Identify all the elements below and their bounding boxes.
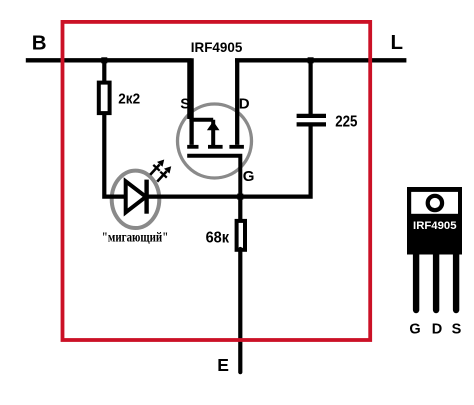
svg-text:E: E [217,355,229,375]
label IRF4905 (schematic) [191,39,243,55]
label R1 value 2к2 [118,90,140,107]
TO-220 leg G [413,255,419,311]
wire: C1 bottom lead down and left to gate node [240,126,311,196]
svg-text:S: S [452,322,462,338]
pin label D [239,96,250,113]
label "мигающий" [102,230,169,245]
svg-text:IRF4905: IRF4905 [413,220,457,232]
svg-text:IRF4905: IRF4905 [191,39,243,55]
node: gate junction [237,194,243,200]
resistor R2 [237,221,245,250]
LED D1 circle [112,171,160,228]
node: junction B rail / R1 [101,57,107,63]
resistor R1 [99,83,110,114]
wire: B rail from left end to transistor source corner [26,58,192,145]
TO-220 pin label G [409,322,420,338]
wire: R1 bottom lead down and right to LED anode [104,113,126,197]
wire: gate node to R2 top [238,197,242,222]
svg-text:225: 225 [335,113,358,130]
transistor Q1 drain contact bar [229,145,244,149]
transistor Q1 body contact bar [208,145,223,149]
TO-220 pin label S [452,322,462,338]
transistor Q1 source branch with arrow [189,120,219,145]
wire: R2 bottom lead to E terminal [238,249,242,372]
LED D1 triangle (anode) [126,181,146,212]
TO-220 leg S [453,255,459,311]
svg-text:L: L [391,31,404,54]
capacitor C1 bottom plate [297,122,326,126]
svg-text:D: D [239,96,250,113]
LED blink arrow 2 [154,163,175,184]
svg-text:2к2: 2к2 [118,90,140,107]
TO-220 package body [407,187,462,255]
svg-text:68к: 68к [206,229,230,246]
label L [391,31,404,54]
TO-220 leg D [433,255,439,311]
label R2 value 68к [206,229,230,246]
wire: LED cathode to gate node [149,195,241,199]
svg-text:G: G [243,168,255,185]
LED D1 cathode bar [144,180,148,214]
LED blink arrow 1 [147,156,168,177]
svg-text:G: G [409,322,420,338]
TO-220 part label IRF4905 [413,220,457,232]
transistor Q1 source contact bar [187,145,198,149]
node: junction L rail / C1 [308,57,314,63]
wire: C1 top lead [309,60,313,114]
capacitor C1 top plate [297,114,326,118]
wire: R1 top lead [102,60,106,84]
TO-220 mounting hole [428,196,442,210]
wire: drain to L rail [235,58,406,145]
label C1 value 225 [335,113,358,130]
label E [217,355,229,375]
TO-220 pin label D [432,322,442,338]
svg-text:"мигающий": "мигающий" [102,230,169,245]
red enclosure box [63,22,371,340]
label B [32,32,47,55]
transistor Q1 gate plate and wire down to gate node [187,156,240,197]
pin label S [180,96,190,113]
svg-text:S: S [180,96,190,113]
svg-text:B: B [32,32,47,55]
svg-text:D: D [432,322,442,338]
pin label G [243,168,255,185]
transistor Q1 body circle [178,104,252,178]
